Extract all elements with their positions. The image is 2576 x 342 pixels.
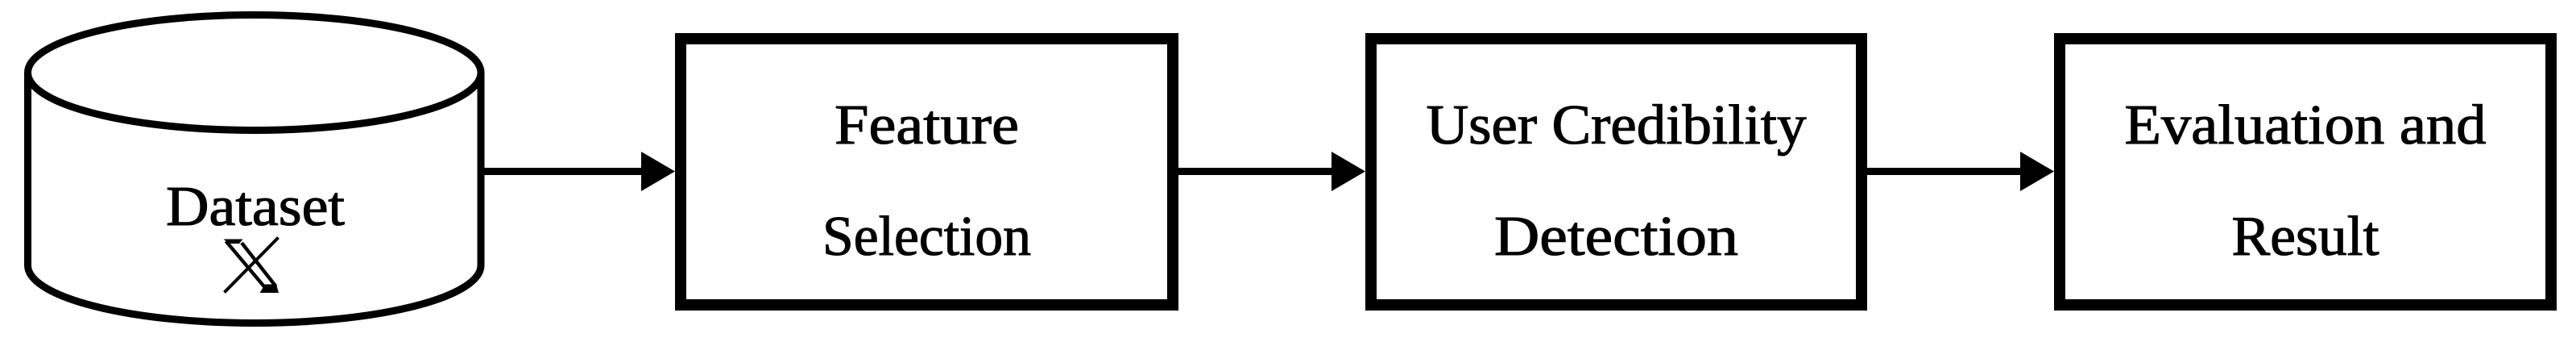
X logo band left rail [226,241,267,290]
svg-text:Selection: Selection [822,206,1031,268]
box User Credibility Detection [1371,39,1862,305]
X logo [224,238,280,294]
box Feature Selection [681,39,1173,305]
arrow 1 head [641,152,675,191]
X logo bottom-right wedge [260,285,280,294]
svg-text:Dataset: Dataset [166,176,346,238]
svg-text:Evaluation and: Evaluation and [2125,94,2487,156]
X logo crossing diagonal [225,238,279,293]
box Evaluation and Result [2060,39,2551,305]
arrow 3 head [2020,152,2054,191]
svg-text:User Credibility: User Credibility [1427,94,1807,156]
arrow 2 head [1331,152,1365,191]
svg-text:Result: Result [2232,206,2380,268]
arrow 1 shaft [482,168,644,175]
database cylinder body [28,73,482,323]
database cylinder top ellipse [28,15,482,131]
arrow 3 shaft [1867,168,2023,175]
svg-text:Feature: Feature [835,94,1019,156]
arrow 2 shaft [1178,168,1335,175]
svg-text:Detection: Detection [1494,206,1738,268]
X logo band right rail [242,243,276,286]
X logo top-left bar [224,240,243,244]
